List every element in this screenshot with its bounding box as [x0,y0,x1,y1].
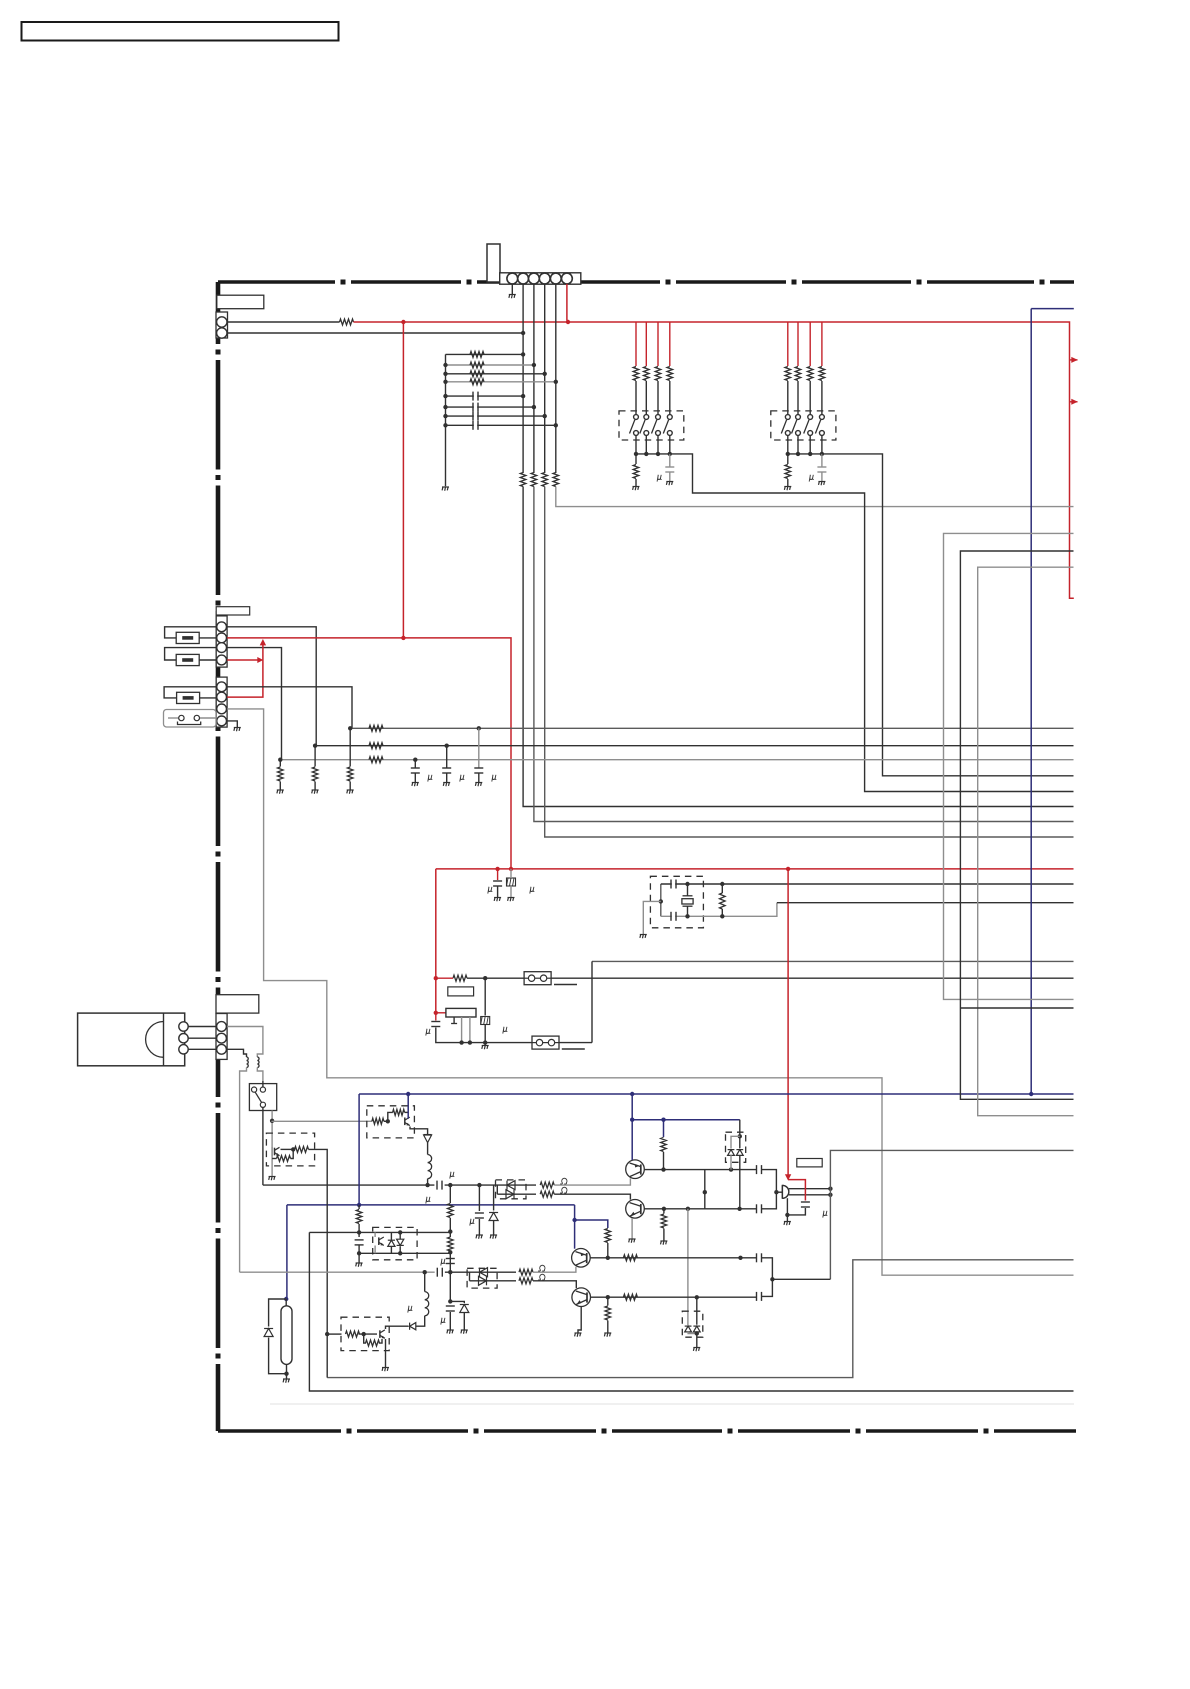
switch S13 bottom contact [656,431,661,436]
wire sp in [776,1191,782,1193]
wire osc out2 [777,902,1074,904]
resonator pin a plate [451,1023,457,1025]
ground G [347,789,354,791]
resistor RB1a [372,1118,384,1124]
gray wire T1 primary out [240,1068,247,1273]
label u [450,1172,455,1179]
node [532,405,536,409]
connector CN1 pin 1 [507,273,518,284]
wire switch S21 out [787,435,789,454]
diode D aux [460,1305,469,1313]
ground G 359 [356,1262,363,1264]
wire CN5 pin3 [227,1049,246,1057]
red stub flt [436,977,453,979]
wire switch S23 out [809,435,811,454]
label u aux2 [441,1318,446,1325]
wire CN4 pin4 gnd [227,721,237,727]
red wire to speaker [787,869,789,1176]
node blue [572,1218,576,1222]
wire offpage C [978,567,1074,1115]
resistor RS23 [807,367,813,381]
gray wire hook bias [271,1111,273,1177]
wire dl1 link [496,1185,498,1194]
resistor R pullup Q1 [661,1138,667,1152]
red power rail VM [354,322,1074,598]
wire cap drop [414,760,416,768]
wire capacitor row 4 [446,424,556,426]
label u aux [441,1259,446,1266]
wire CN1 pin1 to ground [511,284,513,294]
bias box B1 [367,1106,415,1138]
capacitor (box) C2 [481,1017,490,1025]
node [659,899,663,903]
gray wire T1 secondary out [257,1068,263,1082]
wire switch S12 out [645,435,647,454]
dip switch box S2 [771,411,836,440]
resistor R5 [553,473,559,487]
IR module pin 1 [179,1022,188,1031]
hook switch lever [255,1092,262,1103]
switch S14 bottom contact [667,431,672,436]
connector CN3 pin 3 [217,643,227,653]
connector CN2 body [216,312,228,338]
node blue capsule [284,1297,288,1301]
wire out1b [731,1169,757,1171]
switch S14 top contact [667,415,672,420]
wire 359a [358,1205,360,1209]
node red cap tap [495,867,499,871]
node blue bus [630,1092,634,1096]
wire Q3 collector [590,1257,756,1259]
wire gray bus stem [591,961,593,1042]
node blue [661,1118,665,1122]
bias box B2 [266,1133,314,1166]
resistor RS2p [785,465,791,479]
wire capsule diode [269,1299,287,1327]
wire CN2 pin1 [227,321,340,323]
capacitor C4 [474,423,477,427]
wire b1 [384,1120,388,1122]
node [737,1207,741,1211]
label uS1 [657,475,662,482]
wire resistor row 2 [446,364,534,366]
connector CN1 body [500,273,581,284]
connector CN2 pin 2 [217,328,227,338]
node red tap2 [434,1011,438,1015]
wire CN3 pin1 [227,627,316,746]
resistor RS24 [819,367,825,381]
wire Q4 emitter [578,1306,581,1332]
switch S21 lever [781,420,786,434]
connector CN3 pin 4 [217,655,227,665]
wire pin5 line to gray bus [556,487,1074,507]
wire b4 d1b [390,1246,392,1253]
ferrite bead FB2 [176,654,199,665]
red stub resonator [436,1012,446,1014]
ground G b3 [382,1367,389,1369]
wire S11 to switch [635,381,637,414]
wire b3 in [327,1333,341,1335]
wire pin2 line to corner [523,487,1073,807]
connector CN4 pin 3 [217,704,227,714]
capacitor C1 [474,394,477,398]
wire q4 pulldown [607,1297,609,1305]
gray wire b4 qe [374,1246,376,1254]
connector CN3 body [216,616,227,667]
node [291,1147,295,1151]
board outline top edge [218,280,335,284]
wire dl1 top [496,1184,537,1186]
wire capacitor row 2 [446,406,534,408]
wire 359b [358,1224,360,1237]
resistor R ch1b [540,1191,554,1197]
switch S22 bottom contact [796,431,801,436]
ground GS1b [666,481,673,483]
wire b3 r2b [379,1339,382,1343]
blue drop Qc [574,1205,576,1249]
wire offpage D [960,1007,1073,1009]
node [443,414,447,418]
node [425,1183,429,1187]
transistor Q2 [626,1200,645,1219]
wire capsule diode2 [269,1338,287,1374]
wire S2 pulldown2 [787,479,789,486]
diode DB4a [388,1240,395,1246]
capacitor C 359 [355,1239,364,1241]
wire box4 left drop [309,1232,1073,1391]
transistor QB1 [404,1118,406,1126]
resistor R6 [470,351,484,357]
node [606,1295,610,1299]
wire res osc top [721,884,723,893]
wire Q2 pulldown2 [663,1229,665,1241]
node [445,744,449,748]
capacitor C out4 [757,1294,760,1298]
wire clamp stem [739,1120,741,1149]
wire S2 cap2 [821,472,823,481]
blue drop capsule [286,1205,288,1299]
wire capsule bot [286,1364,288,1378]
label u [503,1027,508,1034]
ground G [277,789,284,791]
wire S1 pulldown2 [635,479,637,486]
wire clamp d2b [739,1155,741,1209]
wire cap drop [446,746,448,768]
wire hook sw out [262,1107,264,1185]
ground G spk [784,1221,791,1223]
node blue main [1029,1092,1033,1096]
resistor R1 [340,319,354,325]
transistor Q1 [626,1160,645,1179]
connector CN5 pin 2 [217,1033,227,1043]
label uS2 [809,475,814,482]
node [386,1119,390,1123]
node [443,372,447,376]
resistor R aux2 [448,1237,454,1251]
transistor QB3 [379,1330,381,1338]
wire dl1 bot [497,1193,536,1195]
wire switch S22 out [797,435,799,454]
switch S13 lever [652,420,657,434]
capacitor C [411,767,420,769]
node [443,405,447,409]
hook loop box [164,710,217,728]
ground G [312,789,319,791]
ground G [443,782,450,784]
hook switch contact a [252,1087,257,1092]
wire uz diode [493,1185,495,1210]
red off-page arrow 1 [1070,359,1078,361]
wire aux col2 [449,1218,451,1237]
diode DB4b [397,1239,404,1245]
wire S2 pulldown [787,454,789,464]
connector CN3 pin 1 [217,622,227,632]
wire aux col3 [449,1252,451,1273]
gray wire resonator pin b [461,1017,463,1043]
wire hook loop D3 [168,717,179,719]
node [348,726,352,730]
switch S23 bottom contact [808,431,813,436]
label box CN2 [217,295,264,309]
wire CN1 pin3 down [533,284,535,473]
resistor R [369,743,383,749]
transistor QB4 [378,1237,380,1245]
wire CN3 pin3 [227,648,281,760]
IR module divider [163,1013,165,1066]
resistor R [369,725,383,731]
red bus 2 [436,868,1074,870]
wire uz cap [478,1185,480,1211]
switch S24 lever [815,420,820,434]
switch S24 bottom contact [820,431,825,436]
red wire drop S14 [669,322,671,366]
gray wire bias to box1 [272,1120,372,1123]
blue vertical main [1030,309,1032,1094]
IR module lens [146,1022,164,1058]
wire coil out [427,1179,429,1185]
jumper J2 [532,1036,559,1049]
capacitor C spk [801,1201,810,1203]
gray loop wire [327,1260,1073,1378]
diode limiter box DL1 [496,1180,527,1199]
resistor R3 [531,473,537,487]
label u L2 [408,1306,413,1313]
diode D uz [489,1213,498,1221]
node [413,758,417,762]
ground G uz [476,1234,483,1236]
node [770,1277,774,1281]
wire to ground2 [349,782,351,790]
gray wire resonator pin c [469,1017,471,1043]
ground G2 [442,486,449,488]
gray wire to QC emitter [533,1267,576,1272]
wire IR pin 1 [188,1026,216,1028]
node [325,1332,329,1336]
resistor R q3c [623,1255,637,1261]
wire b1 col [405,1111,409,1113]
wire uz cap2 [478,1219,480,1235]
connector CN3 pin 2 [217,633,227,643]
hook switch contact b [260,1087,265,1092]
diode D8 [693,1326,700,1332]
label box flt [448,987,474,996]
red arrow right [257,657,263,663]
ground G [412,782,419,784]
blue wire B1 collector [407,1094,409,1119]
node [443,423,447,427]
label box CN5 [216,995,259,1013]
ferrite bead FB3 [177,692,200,703]
capacitor C3 [474,414,477,418]
blue jog [575,1220,608,1228]
wire cap drop2 [414,774,416,783]
switch S21 top contact [785,415,790,420]
node [785,1213,789,1217]
wire res cap stub2 [510,886,512,897]
wire b3 diode out [416,1316,425,1326]
label u1 [428,775,433,782]
ground G hook [269,1176,276,1178]
capacitor C [474,767,483,769]
wire S12 to switch [645,381,647,414]
wire cluster bus [445,354,447,486]
ground G q4 [604,1332,611,1334]
switch S11 top contact [634,415,639,420]
ground G dc2 [693,1347,700,1349]
wire S1 common out [670,454,1074,792]
switch S14 lever [663,420,668,434]
red cap stub2 [435,1013,437,1021]
resistor RS12 [644,367,650,381]
wire QB3 collector [386,1326,409,1329]
wire hatch cap [484,978,486,1015]
node [695,1331,699,1335]
capacitor C osc2 [672,914,675,918]
node [774,1190,778,1194]
wire bus row3 [280,759,1073,761]
diode D5 [480,1268,488,1277]
node [448,1299,452,1303]
node [477,726,481,730]
IR module pin 3 [179,1045,188,1054]
crystal X1 [683,895,693,897]
node [554,423,558,427]
wire hook loop D2 [200,717,217,719]
resistor RS1p [633,465,639,479]
ground G q4e [575,1332,582,1334]
wire dc2 gnd2 [696,1332,698,1347]
ground G aux [447,1329,454,1331]
ground GS2b [818,481,825,483]
resistor R8 [470,371,484,377]
wire bead loop A2 [199,637,216,639]
blue top corner [1031,308,1074,310]
capacitor C2 [474,405,477,409]
resistor R q4c [623,1294,637,1300]
wire sp bus [830,1150,1073,1279]
wire resonator pin a [453,1017,455,1024]
node [796,452,800,456]
connector CN1 pin 2 [518,273,529,284]
wire out4 [762,1279,773,1296]
wire dl2 bot [470,1280,517,1282]
wire IR pin 3 [188,1048,216,1050]
dip switch box S1 [619,411,684,440]
wire S1 common [636,453,670,455]
node [357,1230,361,1234]
resistor RB3a [346,1331,360,1337]
node blue [630,1118,634,1122]
label box spk [797,1159,822,1167]
capacitor C aux [446,1258,455,1260]
wire b4 d1 [390,1232,392,1239]
diode DB1 [424,1134,432,1136]
wire b3 r2a [364,1334,366,1343]
wire b2 e [272,1158,276,1160]
node [521,352,525,356]
switch S11 lever [630,420,635,434]
connector CN5 pin 3 [217,1044,227,1054]
wire CN1 pin4 down [544,284,546,473]
gray wire clamp jog [731,1136,740,1148]
resistor R osc [720,893,726,909]
wire CN1 pin5 down [555,284,557,473]
wire offpage A [944,533,1074,999]
node [738,1134,742,1138]
switch S11 bottom contact [634,431,639,436]
ground G [508,897,515,899]
wire Q4 collector [590,1296,756,1298]
wire pullup [663,1152,665,1170]
node [808,452,812,456]
capacitor CS2 [817,466,826,468]
node [521,394,525,398]
wire b2 stem bottom [326,1334,328,1378]
resistor RS11 [633,367,639,381]
capacitor C osc1 [672,882,675,886]
diode D2 [506,1190,514,1199]
gray wire b4 qc [374,1232,376,1237]
wire out merge [772,1278,830,1280]
capacitor C out2 [757,1207,760,1211]
wire upper channel [263,1184,435,1186]
wire bus row1 [350,727,1073,729]
wire resistor row 1 [446,353,524,355]
diode D cap [264,1329,273,1337]
resistor R Q4 pulldown [605,1306,611,1320]
node [554,380,558,384]
capacitor C muF [493,880,502,882]
ground GS1a [633,486,640,488]
wire cap gnd [497,887,499,898]
red wire drop S21 [787,322,789,366]
contact P1 [179,715,184,720]
resonator box X1 [650,876,703,928]
wire to ground [279,760,281,767]
diode D4 [736,1150,743,1156]
connector CN4 pin 1 [217,682,227,692]
wire aux col4 [449,1272,451,1301]
switch S22 top contact [796,415,801,420]
gray wire lower channel [240,1271,435,1273]
wire bead loop C2 [200,697,216,699]
resistor R7 [470,362,484,368]
red wire rail to handset strips [402,322,404,638]
switch S23 top contact [808,415,813,420]
wire b2 r [291,1149,294,1158]
gray wire to limiter [687,1209,689,1325]
resistor RS21 [785,367,791,381]
